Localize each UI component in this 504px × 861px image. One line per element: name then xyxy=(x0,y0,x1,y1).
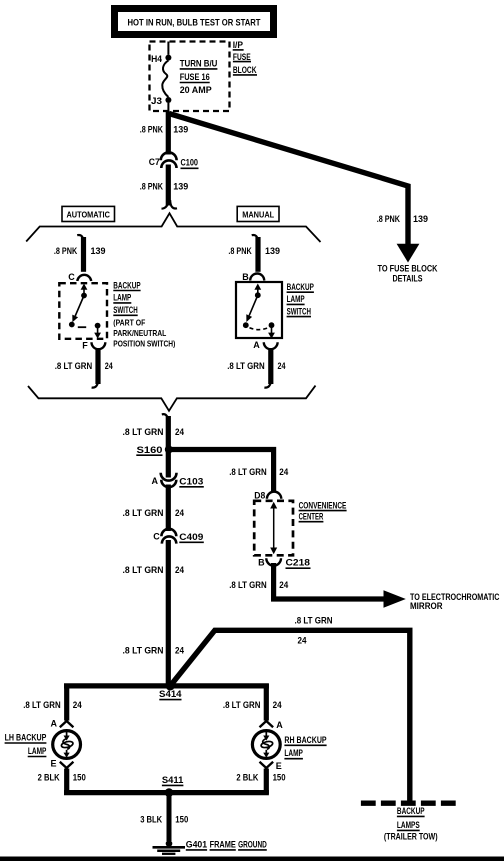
svg-text:LAMP: LAMP xyxy=(287,294,305,304)
connector C7 C100 xyxy=(149,152,199,168)
lamp labels LH BACKUP LAMP xyxy=(5,733,47,757)
wire S160 to C103 xyxy=(166,451,171,478)
svg-text:TURN B/U: TURN B/U xyxy=(180,59,218,69)
wire C100 to merge bracket (.8 PNK 139) xyxy=(162,165,178,209)
wire label .8 PNK 139 xyxy=(140,182,189,192)
fuse TURN B/U FUSE 16 20 AMP xyxy=(151,42,217,113)
svg-text:.8 PNK: .8 PNK xyxy=(140,125,164,135)
wire label 2 BLK 150 xyxy=(38,772,86,782)
svg-text:AUTOMATIC: AUTOMATIC xyxy=(66,209,109,219)
wire manual branch .8 LT GRN xyxy=(264,350,271,388)
convenience center (dashed box) xyxy=(254,501,293,556)
wire label .8 PNK 139 (feed) xyxy=(377,214,428,224)
svg-text:.8 LT GRN: .8 LT GRN xyxy=(23,700,61,710)
svg-text:LAMPS: LAMPS xyxy=(397,820,420,830)
svg-text:D8: D8 xyxy=(254,490,265,500)
terminal A (RH lamp) xyxy=(260,720,284,730)
jumper arrows inside convenience center xyxy=(270,502,277,554)
svg-text:LAMP: LAMP xyxy=(113,293,131,303)
wire ground bus xyxy=(64,790,269,795)
RH backup lamp xyxy=(252,731,280,759)
splice S160 xyxy=(136,445,173,455)
svg-text:C: C xyxy=(153,531,160,541)
terminal D8 xyxy=(254,490,281,500)
svg-text:POSITION SWITCH): POSITION SWITCH) xyxy=(113,338,175,348)
connector C103 xyxy=(152,473,204,488)
labels BACKUP LAMPS (TRAILER TOW) xyxy=(384,806,438,841)
svg-text:BACKUP: BACKUP xyxy=(287,282,314,292)
svg-text:CONVENIENCE: CONVENIENCE xyxy=(299,500,347,510)
wire manual branch .8 PNK xyxy=(252,235,258,272)
svg-text:SWITCH: SWITCH xyxy=(287,306,311,316)
wire diagonal feed to fuse block details xyxy=(169,114,408,246)
wire label .8 LT GRN 24 xyxy=(23,700,82,710)
backup lamp switch (manual box) xyxy=(236,282,282,338)
svg-text:139: 139 xyxy=(173,182,188,192)
svg-text:24: 24 xyxy=(278,361,286,371)
wire label .8 LT GRN xyxy=(295,616,333,646)
merge bracket top xyxy=(26,213,320,242)
svg-text:150: 150 xyxy=(273,772,286,782)
svg-text:A: A xyxy=(51,718,58,728)
svg-text:A: A xyxy=(152,476,159,486)
svg-text:139: 139 xyxy=(91,246,106,256)
connector C409 xyxy=(153,529,204,544)
svg-text:B: B xyxy=(258,558,265,568)
svg-text:20 AMP: 20 AMP xyxy=(180,85,212,95)
svg-text:FUSE: FUSE xyxy=(233,52,251,62)
wire bus to RH lamp (.8 LT GRN) xyxy=(264,684,269,721)
wire S414 to trailer tow backup lamps xyxy=(171,630,410,802)
svg-text:C100: C100 xyxy=(181,158,199,168)
svg-text:.8 LT GRN: .8 LT GRN xyxy=(55,361,93,371)
svg-text:24: 24 xyxy=(175,508,184,518)
svg-text:E: E xyxy=(276,761,282,771)
svg-text:.8 PNK: .8 PNK xyxy=(140,182,164,192)
terminal B xyxy=(242,272,264,282)
svg-text:150: 150 xyxy=(175,815,188,825)
svg-text:TO FUSE BLOCK: TO FUSE BLOCK xyxy=(378,264,438,274)
svg-text:A: A xyxy=(276,720,283,730)
svg-text:C409: C409 xyxy=(179,532,203,542)
svg-text:24: 24 xyxy=(273,700,282,710)
ground G401 xyxy=(153,840,186,854)
svg-text:.8 LT GRN: .8 LT GRN xyxy=(123,565,164,575)
svg-text:B: B xyxy=(242,272,249,282)
terminal A (LH lamp) xyxy=(51,718,74,728)
wire C409 to S414 xyxy=(166,540,171,686)
svg-text:MANUAL: MANUAL xyxy=(242,209,274,219)
wire label .8 LT GRN 24 xyxy=(227,361,285,371)
svg-text:24: 24 xyxy=(298,636,307,646)
wire label .8 LT GRN 24 xyxy=(55,361,113,371)
terminal F xyxy=(82,341,105,351)
wire LH lamp to ground bus (2 BLK 150) xyxy=(64,769,69,795)
svg-text:.8 PNK: .8 PNK xyxy=(377,214,401,224)
wire fuse J3 to connector C100 (.8 PNK 139) xyxy=(166,112,171,155)
svg-text:.8 PNK: .8 PNK xyxy=(228,246,252,256)
wire C103 to C409 xyxy=(166,485,171,532)
svg-text:FUSE 16: FUSE 16 xyxy=(180,72,210,82)
svg-text:S160: S160 xyxy=(137,445,163,455)
svg-text:(PART OF: (PART OF xyxy=(113,317,145,327)
svg-text:24: 24 xyxy=(175,427,184,437)
page footer bar xyxy=(0,857,504,861)
svg-text:LH BACKUP: LH BACKUP xyxy=(5,733,47,743)
svg-text:139: 139 xyxy=(413,214,428,224)
wire label .8 PNK 139 xyxy=(140,125,189,135)
terminal E (RH lamp) xyxy=(260,761,282,771)
wire S411 to ground (3 BLK 150) xyxy=(167,793,172,841)
wire RH lamp to ground bus (2 BLK 150) xyxy=(264,769,269,795)
label I/P FUSE BLOCK xyxy=(233,40,257,75)
svg-text:GROUND: GROUND xyxy=(238,839,267,849)
wire label .8 PNK 139 xyxy=(54,246,106,256)
svg-text:C218: C218 xyxy=(286,558,311,568)
switch contacts and arm (manual) xyxy=(243,284,275,339)
svg-text:MIRROR: MIRROR xyxy=(410,601,443,611)
svg-text:BACKUP: BACKUP xyxy=(397,806,425,816)
svg-text:139: 139 xyxy=(265,246,280,256)
svg-text:BACKUP: BACKUP xyxy=(113,280,140,290)
svg-text:LAMP: LAMP xyxy=(28,746,47,756)
svg-text:PARK/NEUTRAL: PARK/NEUTRAL xyxy=(113,328,166,338)
svg-text:2 BLK: 2 BLK xyxy=(38,772,60,782)
label box HOT IN RUN, BULB TEST OR START xyxy=(111,5,277,38)
arrow to electrochromatic mirror xyxy=(384,590,500,611)
svg-text:HOT IN RUN, BULB TEST OR START: HOT IN RUN, BULB TEST OR START xyxy=(128,18,261,28)
svg-text:RH BACKUP: RH BACKUP xyxy=(284,735,326,745)
merge bracket bottom xyxy=(28,386,316,411)
svg-text:.8 LT GRN: .8 LT GRN xyxy=(227,361,265,371)
terminal A (manual) xyxy=(253,340,277,350)
wire label .8 LT GRN 24 xyxy=(123,427,185,437)
switch labels BACKUP LAMP SWITCH (manual) xyxy=(287,282,314,317)
wire bracket to S160 (.8 LT GRN 24) xyxy=(162,414,169,450)
wire label .8 LT GRN 24 xyxy=(123,645,185,655)
svg-text:G401: G401 xyxy=(186,839,207,849)
svg-text:3 BLK: 3 BLK xyxy=(140,815,162,825)
terminal E (LH lamp) xyxy=(50,758,73,768)
wire label .8 PNK 139 xyxy=(228,246,280,256)
svg-text:24: 24 xyxy=(279,467,288,477)
lamp labels RH BACKUP LAMP xyxy=(284,735,326,759)
svg-text:I/P: I/P xyxy=(233,40,243,50)
splice S411 xyxy=(162,775,184,797)
wire bus to LH lamp (.8 LT GRN) xyxy=(64,684,69,721)
backup lamp switch (automatic, dashed box) xyxy=(59,283,107,339)
svg-text:2 BLK: 2 BLK xyxy=(236,772,258,782)
svg-text:J3: J3 xyxy=(151,96,162,106)
svg-text:F: F xyxy=(82,341,88,351)
svg-text:FRAME: FRAME xyxy=(210,839,236,849)
wire label .8 LT GRN 24 xyxy=(123,508,185,518)
switch labels BACKUP LAMP SWITCH (PART OF PARK/NEUTRAL POSITION SWITCH) xyxy=(113,280,175,348)
svg-text:.8 LT GRN: .8 LT GRN xyxy=(229,580,267,590)
wire label .8 LT GRN 24 xyxy=(223,700,282,710)
svg-text:H4: H4 xyxy=(151,54,162,64)
svg-text:24: 24 xyxy=(105,361,113,371)
svg-text:A: A xyxy=(253,340,260,350)
splice S414 xyxy=(159,681,182,699)
svg-text:DETAILS: DETAILS xyxy=(393,273,423,283)
wire label 2 BLK 150 xyxy=(236,772,285,782)
wire lamp feed bus xyxy=(64,683,269,688)
I/P fuse block (dashed box) xyxy=(150,42,230,112)
terminal C xyxy=(68,272,91,282)
svg-text:.8 LT GRN: .8 LT GRN xyxy=(123,508,164,518)
svg-text:.8 LT GRN: .8 LT GRN xyxy=(229,467,267,477)
label MANUAL xyxy=(237,206,279,221)
svg-text:139: 139 xyxy=(173,125,188,135)
wire label 3 BLK 150 xyxy=(140,815,188,825)
wire label .8 LT GRN 24 xyxy=(123,565,185,575)
svg-text:C103: C103 xyxy=(179,476,203,486)
label G401 FRAME GROUND xyxy=(186,839,267,850)
svg-text:.8 LT GRN: .8 LT GRN xyxy=(123,645,164,655)
svg-text:CENTER: CENTER xyxy=(299,511,324,521)
svg-text:.8 LT GRN: .8 LT GRN xyxy=(123,427,164,437)
svg-text:24: 24 xyxy=(175,565,184,575)
svg-text:24: 24 xyxy=(175,645,184,655)
LH backup lamp xyxy=(53,731,81,759)
svg-text:S414: S414 xyxy=(159,689,182,699)
svg-text:BLOCK: BLOCK xyxy=(233,65,257,75)
svg-text:.8 LT GRN: .8 LT GRN xyxy=(223,700,261,710)
svg-text:24: 24 xyxy=(279,580,288,590)
switch contacts and arm (automatic) xyxy=(69,284,101,339)
terminal B connector C218 xyxy=(258,558,310,569)
trailer tow connector (dashed line) xyxy=(361,801,456,806)
svg-text:.8 PNK: .8 PNK xyxy=(54,246,78,256)
svg-text:S411: S411 xyxy=(162,775,184,785)
labels CONVENIENCE CENTER xyxy=(299,500,347,521)
wire label .8 LT GRN 24 xyxy=(229,580,288,590)
svg-text:150: 150 xyxy=(73,772,86,782)
arrow to fuse block details xyxy=(378,244,438,284)
svg-text:.8 LT GRN: .8 LT GRN xyxy=(295,616,333,626)
svg-text:LAMP: LAMP xyxy=(284,748,303,758)
svg-text:E: E xyxy=(50,758,56,768)
wire label .8 LT GRN 24 (branch) xyxy=(229,467,288,477)
wire automatic branch .8 PNK xyxy=(77,235,83,272)
svg-text:24: 24 xyxy=(73,700,82,710)
svg-text:C7: C7 xyxy=(149,157,160,167)
label AUTOMATIC xyxy=(62,206,115,221)
svg-text:(TRAILER TOW): (TRAILER TOW) xyxy=(384,831,438,841)
wire automatic branch .8 LT GRN xyxy=(92,350,99,388)
wire S160 branch to convenience center xyxy=(169,450,274,493)
svg-text:SWITCH: SWITCH xyxy=(113,305,137,315)
svg-text:C: C xyxy=(68,272,75,282)
wire C218 to mirror arrow xyxy=(274,563,384,599)
